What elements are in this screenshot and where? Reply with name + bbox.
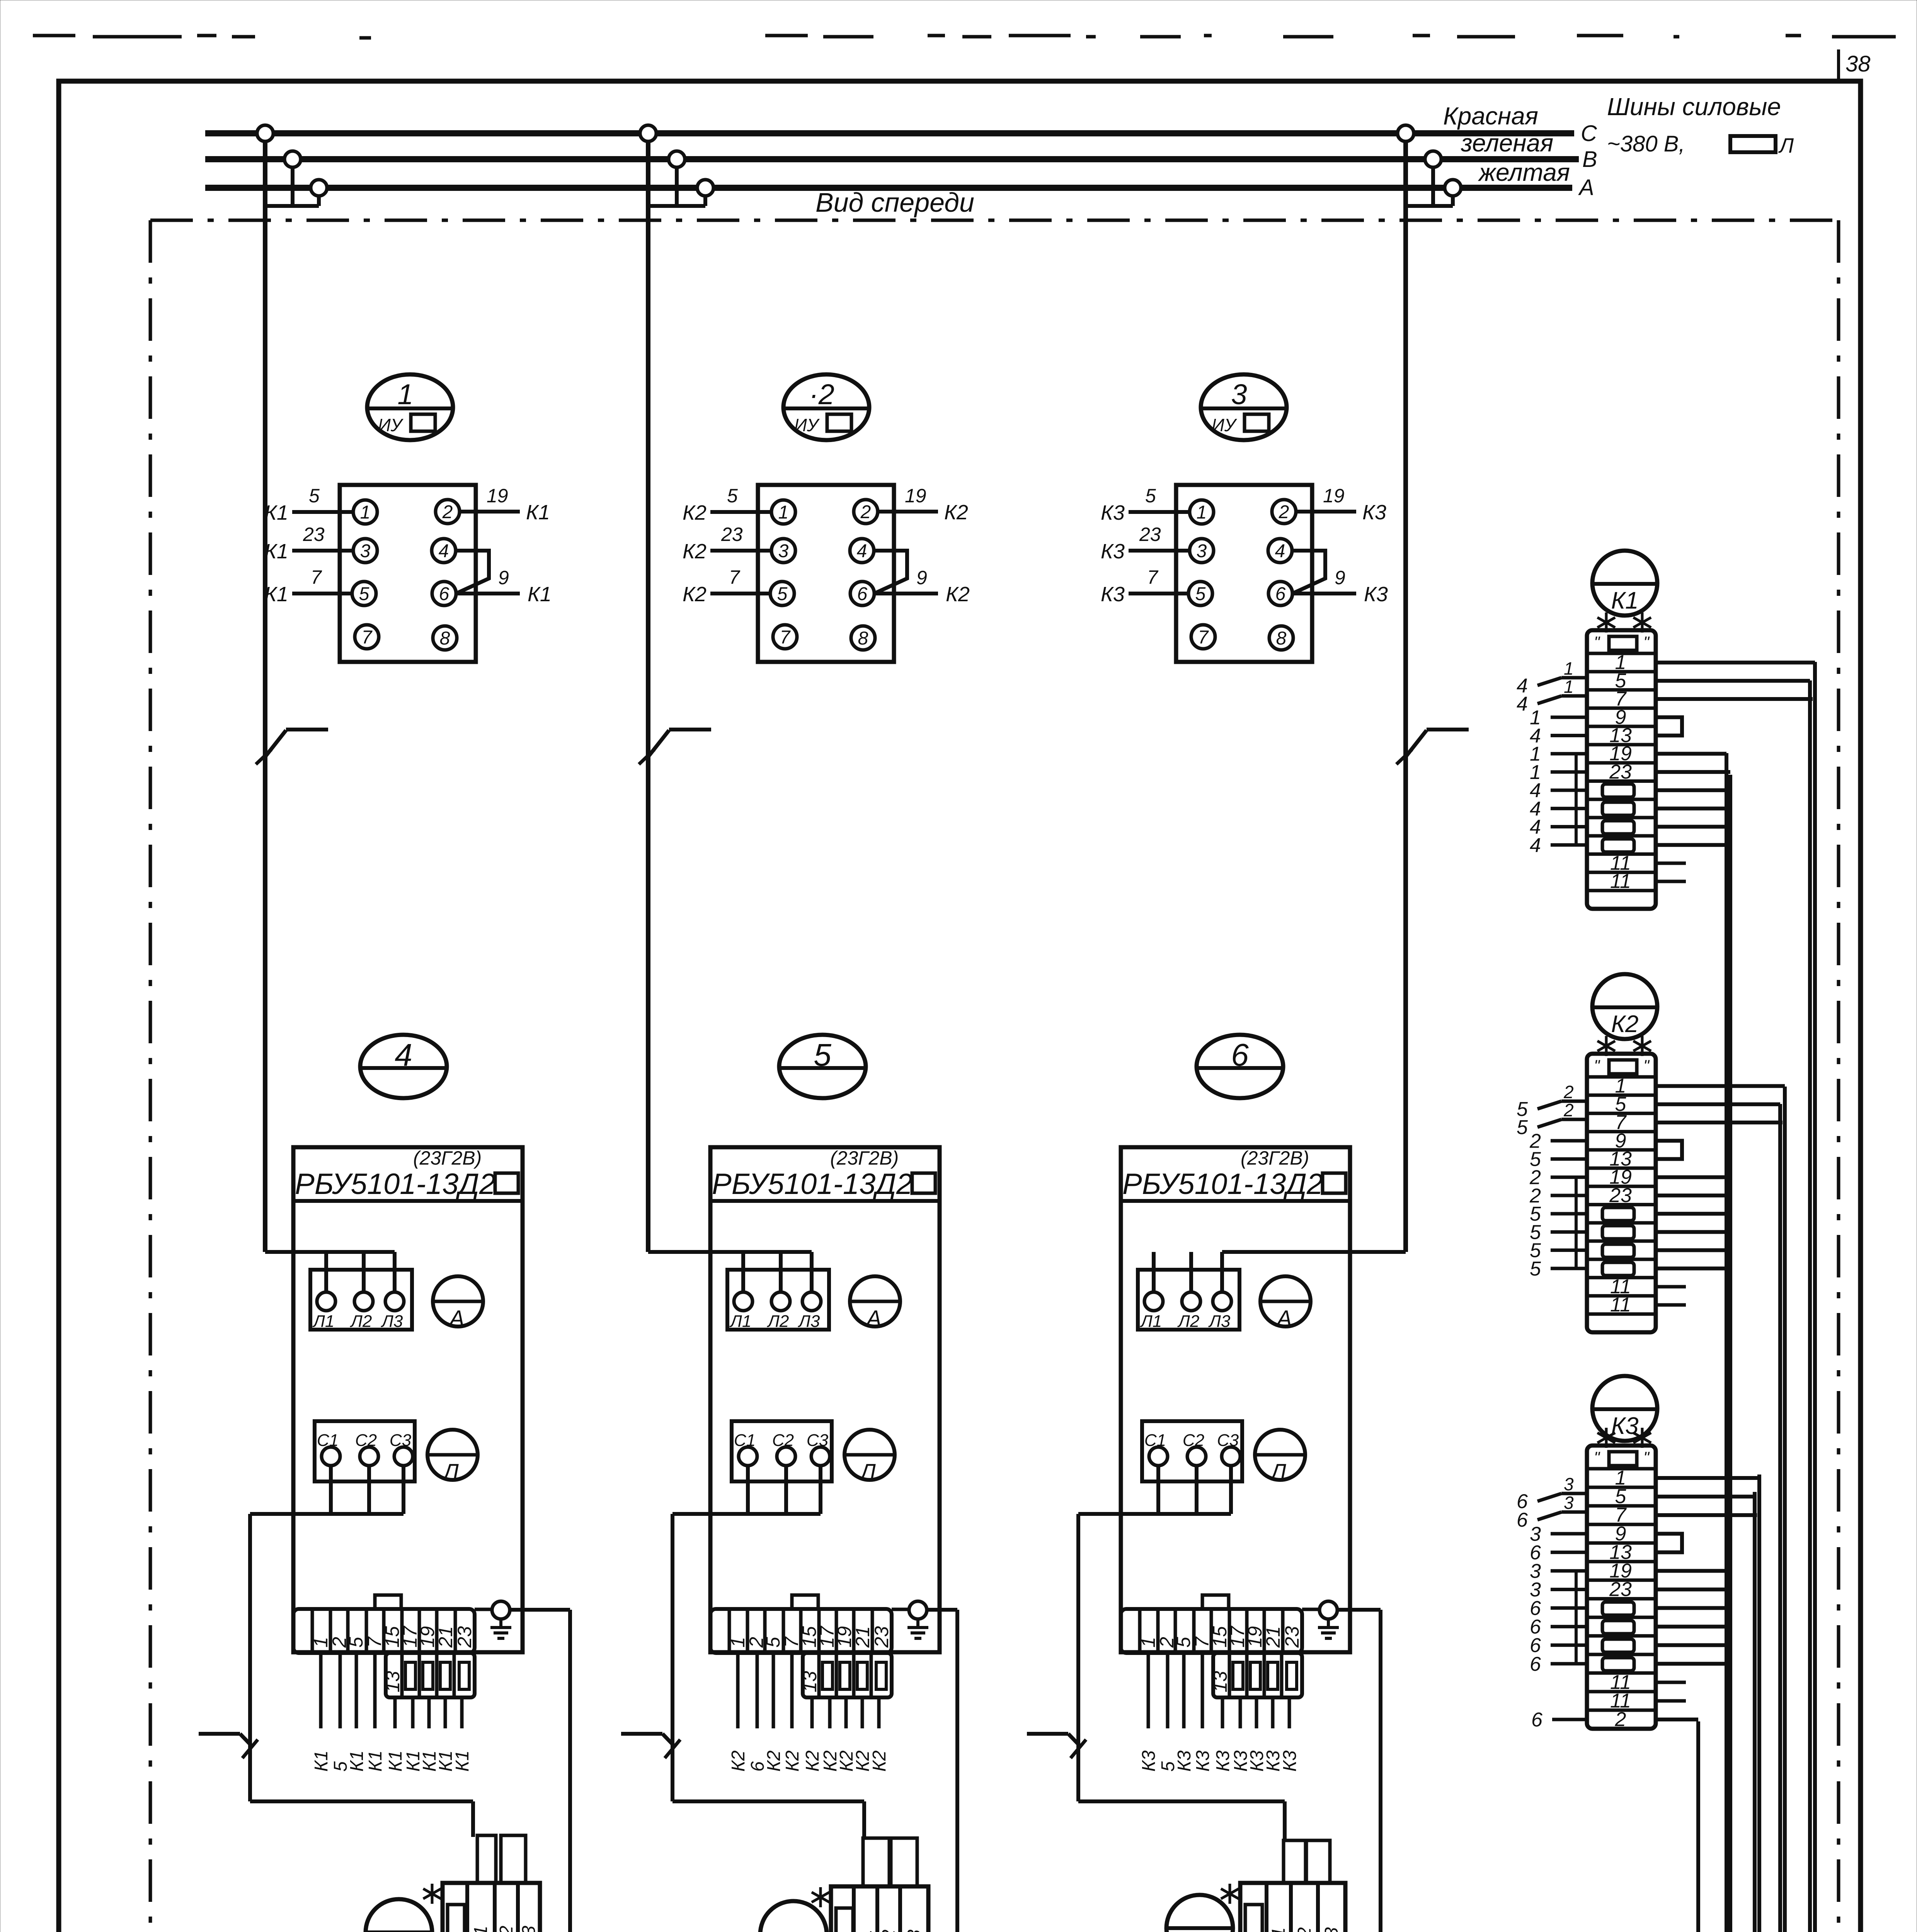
- drop wire to unit 3: [1403, 141, 1408, 1252]
- svg-text:К2: К2: [782, 1750, 803, 1772]
- svg-text:": ": [1643, 1056, 1650, 1075]
- terminal 4 of unit 2: [850, 539, 874, 563]
- svg-text:К1: К1: [264, 501, 288, 524]
- svg-text:ИУ: ИУ: [378, 415, 404, 435]
- svg-text:23: 23: [1281, 1626, 1303, 1648]
- left bundle wire of strip К2: [1575, 1177, 1578, 1269]
- svg-text:21: 21: [435, 1626, 456, 1648]
- svg-text:К2: К2: [764, 1750, 784, 1772]
- wire К1-7 to terminal 5: [264, 566, 352, 606]
- svg-text:А: А: [448, 1306, 465, 1331]
- riser pair common rows 19-r4 to relay panel: [1495, 753, 1730, 1932]
- designation circle К4: [366, 1899, 432, 1932]
- strip header with lug К1: [1594, 633, 1650, 651]
- svg-text:3: 3: [1564, 1474, 1574, 1494]
- svg-text:Вид спереди: Вид спереди: [815, 187, 974, 218]
- feed link to block К4: [250, 1801, 473, 1837]
- power bus phase A (yellow): [205, 185, 1572, 191]
- riser wire from K3 row 2 to zero bus: [1437, 1721, 1698, 1932]
- strip header with lug К3: [1594, 1448, 1650, 1466]
- svg-text:К2: К2: [944, 501, 968, 524]
- output terminal box C1 C2 C3 unit 4: [315, 1421, 415, 1481]
- svg-text:К1: К1: [311, 1750, 332, 1772]
- legend shiny silovye 380V: [1607, 93, 1794, 157]
- terminal strip К2: [1587, 1054, 1656, 1332]
- terminal 6 of unit 3: [1268, 582, 1292, 605]
- svg-text:С: С: [1581, 121, 1597, 146]
- svg-text:11: 11: [1610, 870, 1631, 893]
- indicator L circle unit 4: [427, 1430, 478, 1485]
- cable break mark on motor feed 6: [1027, 1734, 1086, 1758]
- svg-text:Шины силовые: Шины силовые: [1607, 93, 1781, 121]
- svg-text:38: 38: [1845, 51, 1871, 77]
- node on bus A for panel 3: [1445, 180, 1461, 196]
- terminal strip К1: [1587, 630, 1656, 909]
- asterisks above strip К1: [1597, 612, 1615, 633]
- terminal 1 of unit 2: [771, 500, 795, 524]
- svg-text:9: 9: [1335, 567, 1345, 588]
- row numbers of strip К1: [1602, 651, 1634, 893]
- svg-text:С3: С3: [904, 1929, 924, 1932]
- svg-text:": ": [1594, 633, 1600, 651]
- svg-text:23: 23: [871, 1626, 892, 1648]
- svg-text:желтая: желтая: [1478, 158, 1570, 186]
- feed link to block К6: [1078, 1801, 1285, 1842]
- cable break mark on drop wire 3: [1396, 730, 1469, 764]
- terminal strip of unit 5: [710, 1609, 892, 1653]
- jumper rows 9-13 of К3: [1656, 1534, 1682, 1552]
- svg-text:А: А: [1578, 175, 1594, 200]
- svg-text:3: 3: [360, 541, 371, 561]
- asterisks above strip К3: [1597, 1428, 1615, 1448]
- svg-text:3: 3: [1231, 378, 1247, 410]
- svg-text:К2: К2: [1611, 1011, 1638, 1037]
- svg-text:·2: ·2: [809, 378, 834, 410]
- svg-text:Л: Л: [442, 1459, 459, 1485]
- wire 9-К2 from terminal 6: [874, 567, 970, 606]
- terminal 6 of unit 1: [432, 582, 456, 605]
- svg-text:4: 4: [1530, 834, 1541, 857]
- svg-text:Л3: Л3: [798, 1312, 820, 1331]
- svg-text:Л2: Л2: [350, 1312, 372, 1331]
- svg-text:К3: К3: [1611, 1413, 1638, 1439]
- svg-text:21: 21: [852, 1626, 873, 1648]
- svg-text:К2: К2: [683, 501, 707, 524]
- svg-text:": ": [1594, 1448, 1600, 1466]
- three-phase drop wire group for panel 2: [648, 167, 705, 206]
- svg-text:4: 4: [439, 541, 449, 561]
- jumper rows 9-13 of К1: [1656, 717, 1682, 735]
- terminal 5 of unit 1: [352, 582, 376, 605]
- svg-text:3: 3: [1197, 541, 1207, 561]
- svg-text:2: 2: [860, 502, 871, 522]
- svg-text:4: 4: [395, 1037, 412, 1073]
- svg-text:9: 9: [916, 567, 927, 588]
- node on bus B for panel 2: [669, 151, 685, 167]
- asterisk marks at К6: [1221, 1884, 1239, 1904]
- feed wires into L1 L2 L3 unit 5: [648, 1252, 812, 1292]
- svg-text:Л1: Л1: [1140, 1312, 1162, 1331]
- designation circle К1: [1592, 551, 1657, 616]
- jumper rows 9-13 of К2: [1656, 1141, 1682, 1159]
- svg-text:6: 6: [857, 584, 868, 604]
- svg-text:К2: К2: [946, 583, 970, 606]
- jumper terminal 4 to terminal 6 unit 3: [1292, 551, 1325, 594]
- svg-text:19: 19: [905, 485, 926, 507]
- svg-text:2: 2: [1563, 1100, 1574, 1120]
- feed wires into L1 L2 L3 unit 6: [1154, 1252, 1406, 1292]
- wire К3-5 to terminal 1: [1101, 485, 1190, 524]
- node on bus B for panel 1: [284, 151, 301, 167]
- svg-text:К3: К3: [1101, 583, 1125, 606]
- svg-text:(23Г2В): (23Г2В): [830, 1147, 899, 1169]
- svg-text:23: 23: [1609, 1578, 1632, 1600]
- svg-text:11: 11: [1610, 1294, 1631, 1316]
- svg-text:А: А: [865, 1306, 882, 1331]
- right wires of strip К2: [1656, 1086, 1785, 1269]
- wire К1-5 to terminal 1: [264, 485, 353, 524]
- svg-text:К1: К1: [452, 1750, 473, 1772]
- svg-text:1: 1: [1564, 658, 1574, 679]
- wire 9-К3 from terminal 6: [1292, 567, 1388, 606]
- cable columns into block К6: [1284, 1840, 1330, 1883]
- terminal 3 of unit 3: [1190, 539, 1214, 563]
- header label RBU5101-13D2 unit 6: [1121, 1147, 1350, 1201]
- designation circle К3: [1592, 1376, 1657, 1441]
- svg-text:Л1: Л1: [312, 1312, 335, 1331]
- svg-text:С3: С3: [519, 1925, 539, 1932]
- strip top lug unit 6: [1202, 1595, 1229, 1609]
- lower strip 13 and spare blocks unit 5: [799, 1653, 892, 1697]
- wire К3-23 to terminal 3: [1101, 524, 1190, 563]
- svg-text:К1: К1: [264, 540, 288, 563]
- cable break mark on drop wire 1: [256, 730, 328, 764]
- terminal 2 of unit 1: [436, 500, 460, 524]
- bus label Krasnaya C: [1443, 102, 1597, 146]
- strip top lug unit 4: [375, 1595, 401, 1609]
- wire labels К1 under strip unit 4: [311, 1750, 473, 1772]
- node on bus B for panel 3: [1425, 151, 1441, 167]
- svg-text:~380 В,: ~380 В,: [1607, 131, 1685, 156]
- svg-text:К1: К1: [365, 1750, 386, 1772]
- svg-text:4: 4: [857, 541, 867, 561]
- motor feed riser of unit 5: [671, 1514, 674, 1801]
- terminal box of unit 1: [340, 485, 476, 662]
- short stubs rows 11 of К2: [1656, 1287, 1686, 1305]
- cable break mark on motor feed 5: [621, 1734, 680, 1758]
- svg-text:8: 8: [1276, 628, 1287, 649]
- svg-text:С2: С2: [496, 1926, 517, 1932]
- svg-text:А: А: [1276, 1306, 1292, 1331]
- output wires from C1 C2 C3 unit 5: [672, 1466, 821, 1514]
- terminal 7 of unit 1: [355, 625, 379, 649]
- svg-text:6: 6: [439, 584, 449, 604]
- control unit IU oval symbol 2: [783, 374, 869, 440]
- terminal block C1 C2 C3 of К4: [443, 1883, 540, 1932]
- svg-text:2: 2: [1279, 502, 1289, 522]
- wire 19-К1 from terminal 2: [460, 485, 550, 524]
- svg-text:7: 7: [780, 627, 791, 648]
- svg-text:С2: С2: [1294, 1927, 1315, 1932]
- svg-text:13: 13: [1209, 1671, 1231, 1692]
- drop wire to unit 2: [646, 141, 650, 1252]
- starter block RBU5101-13D2 unit 5: [710, 1147, 940, 1652]
- wire labels К3 under strip unit 6: [1139, 1750, 1300, 1772]
- ground terminal unit 6: [1302, 1601, 1339, 1638]
- right wires of strip К3: [1656, 1478, 1759, 1719]
- input terminal box L1 L2 L3 unit 6: [1138, 1270, 1239, 1331]
- riser pair from K1 rows 1-5-7 to junction box 3: [1765, 662, 1815, 1932]
- svg-text:РБУ5101-13Д2: РБУ5101-13Д2: [1122, 1168, 1323, 1201]
- terminal 8 of unit 3: [1269, 626, 1293, 650]
- svg-text:23: 23: [1139, 524, 1161, 545]
- header label RBU5101-13D2 unit 5: [710, 1147, 940, 1201]
- svg-text:К1: К1: [528, 583, 552, 606]
- terminal 3 of unit 2: [771, 539, 795, 563]
- svg-text:Л2: Л2: [767, 1312, 789, 1331]
- svg-text:": ": [1594, 1056, 1600, 1075]
- left bundle wire of strip К3: [1575, 1571, 1578, 1663]
- wire labels К2 under strip unit 5: [728, 1750, 890, 1772]
- svg-text:К2: К2: [869, 1750, 890, 1772]
- svg-text:Л3: Л3: [381, 1312, 403, 1331]
- terminal box of unit 3: [1176, 485, 1312, 662]
- terminal 5 of unit 2: [770, 582, 794, 605]
- indicator A circle unit 5: [850, 1276, 900, 1331]
- terminal 4 of unit 1: [432, 539, 456, 563]
- bus label zelenaya B: [1461, 129, 1597, 172]
- svg-text:": ": [1643, 633, 1650, 651]
- svg-text:1: 1: [1564, 677, 1574, 697]
- panel boundary dash-dot outline: [150, 220, 1839, 1932]
- svg-text:23: 23: [454, 1626, 475, 1648]
- left wires with source labels of strip К2: [1517, 1082, 1587, 1280]
- cable columns into block К5: [863, 1838, 917, 1886]
- svg-text:6: 6: [1530, 1653, 1541, 1675]
- svg-text:23: 23: [721, 524, 743, 545]
- svg-text:5: 5: [814, 1037, 831, 1073]
- wire К2-5 to terminal 1: [683, 485, 771, 524]
- power bus phase C (red): [205, 130, 1574, 136]
- svg-text:С2: С2: [878, 1930, 899, 1932]
- svg-text:К3: К3: [1101, 501, 1125, 524]
- svg-text:13: 13: [382, 1671, 403, 1692]
- drop wire to unit 1: [263, 141, 267, 1252]
- svg-text:4: 4: [1275, 541, 1285, 561]
- terminal strip numbers unit 5: [727, 1625, 892, 1648]
- terminal 3 of unit 1: [353, 539, 377, 563]
- svg-text:6: 6: [1275, 584, 1286, 604]
- wire 9-К1 from terminal 6: [456, 567, 552, 606]
- svg-text:ИУ: ИУ: [1212, 415, 1238, 435]
- output wires from C1 C2 C3 unit 6: [1078, 1466, 1231, 1514]
- outgoing wires of strip unit 4: [321, 1653, 462, 1728]
- svg-text:К3: К3: [1139, 1750, 1159, 1772]
- svg-text:23: 23: [1609, 1184, 1632, 1207]
- cable columns into block К4: [477, 1835, 526, 1883]
- svg-text:Л: Л: [859, 1459, 876, 1485]
- left wires with source labels of strip К3: [1517, 1474, 1587, 1731]
- svg-text:К1: К1: [264, 583, 288, 606]
- svg-text:13: 13: [799, 1671, 821, 1692]
- svg-text:РБУ5101-13Д2: РБУ5101-13Д2: [712, 1168, 913, 1201]
- svg-text:(23Г2В): (23Г2В): [413, 1147, 482, 1169]
- terminal strip of unit 4: [293, 1609, 475, 1653]
- motor feed riser of unit 6: [1076, 1514, 1080, 1801]
- indicator A circle unit 6: [1260, 1276, 1311, 1331]
- terminal 4 of unit 3: [1268, 539, 1292, 563]
- indicator A circle unit 4: [433, 1276, 483, 1331]
- indicator L circle unit 5: [844, 1430, 895, 1485]
- motor feed riser of unit 4: [248, 1514, 252, 1801]
- bus label zheltaya A: [1478, 158, 1594, 200]
- position oval 5: [779, 1035, 866, 1098]
- feed link to block К5: [672, 1801, 864, 1840]
- svg-text:23: 23: [1609, 761, 1632, 783]
- terminal strip of unit 6: [1121, 1609, 1302, 1653]
- ground terminal unit 4: [475, 1601, 511, 1638]
- ground wire to bus unit 6: [1337, 1610, 1381, 1932]
- outgoing wires of strip unit 6: [1148, 1653, 1289, 1728]
- designation circle К6: [1166, 1895, 1233, 1932]
- svg-text:К3: К3: [1174, 1750, 1195, 1772]
- svg-text:К3: К3: [1280, 1750, 1300, 1772]
- svg-text:7: 7: [729, 566, 741, 588]
- designation circle К2: [1592, 974, 1657, 1039]
- svg-text:5: 5: [309, 485, 320, 507]
- wire К3-7 to terminal 5: [1101, 566, 1188, 606]
- feed wires into L1 L2 L3 unit 4: [265, 1252, 395, 1292]
- svg-text:19: 19: [487, 485, 508, 507]
- svg-text:В: В: [1582, 147, 1597, 172]
- svg-text:К2: К2: [683, 540, 707, 563]
- jumper terminal 4 to terminal 6 unit 2: [874, 551, 907, 594]
- ground terminal unit 5: [892, 1601, 928, 1638]
- header label RBU5101-13D2 unit 4: [293, 1147, 523, 1201]
- position oval 4: [360, 1035, 447, 1098]
- output terminal box C1 C2 C3 unit 6: [1142, 1421, 1242, 1481]
- svg-text:(23Г2В): (23Г2В): [1241, 1147, 1309, 1169]
- svg-text:5: 5: [359, 584, 369, 604]
- svg-text:7: 7: [362, 627, 373, 648]
- svg-text:7: 7: [1198, 627, 1209, 648]
- svg-text:8: 8: [440, 628, 450, 649]
- three-phase drop wire group for panel 1: [265, 167, 319, 206]
- designation circle К5: [760, 1901, 827, 1932]
- svg-text:Красная: Красная: [1443, 102, 1538, 130]
- svg-text:19: 19: [1323, 485, 1345, 507]
- svg-text:Л3: Л3: [1208, 1312, 1231, 1331]
- svg-text:5: 5: [777, 584, 788, 604]
- lower strip 13 and spare blocks unit 4: [382, 1653, 475, 1697]
- riser pair from K3 rows 1-5-7 to junction box 1: [1587, 1475, 1759, 1932]
- control unit IU oval symbol 1: [367, 374, 453, 440]
- svg-text:6: 6: [1517, 1509, 1528, 1531]
- svg-text:К3: К3: [1364, 583, 1388, 606]
- svg-text:К2: К2: [683, 583, 707, 606]
- cable break mark on drop wire 2: [639, 730, 711, 764]
- row numbers of strip К2: [1602, 1075, 1634, 1316]
- terminal strip numbers unit 4: [310, 1625, 475, 1648]
- row numbers of strip К3: [1602, 1467, 1634, 1731]
- terminal 2 of unit 2: [854, 500, 878, 524]
- svg-text:Л: Л: [1269, 1459, 1286, 1485]
- cable break mark on motor feed 4: [199, 1734, 258, 1758]
- terminal strip К3: [1587, 1446, 1656, 1729]
- svg-text:К1: К1: [526, 501, 550, 524]
- power bus phase B (green): [205, 156, 1579, 162]
- svg-text:Л2: Л2: [1177, 1312, 1200, 1331]
- page number 38 top right: [1839, 49, 1871, 79]
- svg-text:С3: С3: [1321, 1927, 1342, 1932]
- svg-text:9: 9: [498, 567, 509, 588]
- terminal strip numbers unit 6: [1137, 1625, 1303, 1648]
- svg-text:5: 5: [1145, 485, 1156, 507]
- svg-text:7: 7: [311, 566, 322, 588]
- terminal box of unit 2: [758, 485, 894, 662]
- short stubs rows 11 of К3: [1656, 1682, 1686, 1701]
- node on bus C for panel 2: [640, 125, 656, 141]
- svg-text:К3: К3: [1362, 501, 1386, 524]
- svg-text:8: 8: [858, 628, 868, 649]
- svg-text:ИУ: ИУ: [794, 415, 820, 435]
- svg-text:1: 1: [397, 378, 413, 410]
- lower strip 13 and spare blocks unit 6: [1209, 1653, 1302, 1697]
- wire К1-23 to terminal 3: [264, 524, 353, 563]
- terminal block C1 C2 C3 of К5: [831, 1886, 928, 1932]
- svg-text:зеленая: зеленая: [1461, 129, 1553, 157]
- svg-text:4: 4: [1517, 693, 1528, 715]
- wire 19-К2 from terminal 2: [878, 485, 968, 524]
- wire 19-К3 from terminal 2: [1296, 485, 1386, 524]
- svg-text:К1: К1: [1611, 587, 1638, 614]
- svg-text:С1: С1: [471, 1926, 491, 1932]
- starter block RBU5101-13D2 unit 4: [293, 1147, 523, 1652]
- svg-text:К3: К3: [1193, 1750, 1213, 1772]
- node on bus A for panel 2: [697, 180, 713, 196]
- strip top lug unit 5: [792, 1595, 818, 1609]
- asterisks above strip К2: [1597, 1036, 1615, 1056]
- output terminal box C1 C2 C3 unit 5: [732, 1421, 832, 1481]
- svg-text:2: 2: [442, 502, 453, 522]
- svg-text:С1: С1: [855, 1930, 876, 1932]
- terminal 6 of unit 2: [850, 582, 874, 605]
- control unit IU oval symbol 3: [1201, 374, 1287, 440]
- terminal 2 of unit 3: [1272, 500, 1296, 524]
- jumper terminal 4 to terminal 6 unit 1: [456, 551, 489, 594]
- terminal 5 of unit 3: [1188, 582, 1212, 605]
- svg-text:3: 3: [778, 541, 789, 561]
- terminal 1 of unit 3: [1190, 500, 1214, 524]
- svg-text:2: 2: [1563, 1082, 1574, 1102]
- svg-text:1: 1: [1197, 502, 1207, 523]
- asterisk marks at К5: [812, 1887, 829, 1907]
- wire К2-7 to terminal 5: [683, 566, 770, 606]
- indicator L circle unit 6: [1255, 1430, 1305, 1485]
- outgoing wires of strip unit 5: [738, 1653, 879, 1728]
- svg-text:6: 6: [1231, 1037, 1249, 1073]
- svg-text:23: 23: [303, 524, 325, 545]
- left bundle wire of strip К1: [1575, 754, 1578, 845]
- short stubs rows 11 of К1: [1656, 863, 1686, 881]
- svg-text:": ": [1643, 1448, 1650, 1466]
- terminal 8 of unit 2: [851, 626, 875, 650]
- svg-text:3: 3: [1564, 1493, 1574, 1513]
- svg-text:7: 7: [1147, 566, 1159, 588]
- svg-text:5: 5: [1195, 584, 1206, 604]
- svg-text:5: 5: [1530, 1258, 1541, 1280]
- position oval 6: [1197, 1035, 1283, 1098]
